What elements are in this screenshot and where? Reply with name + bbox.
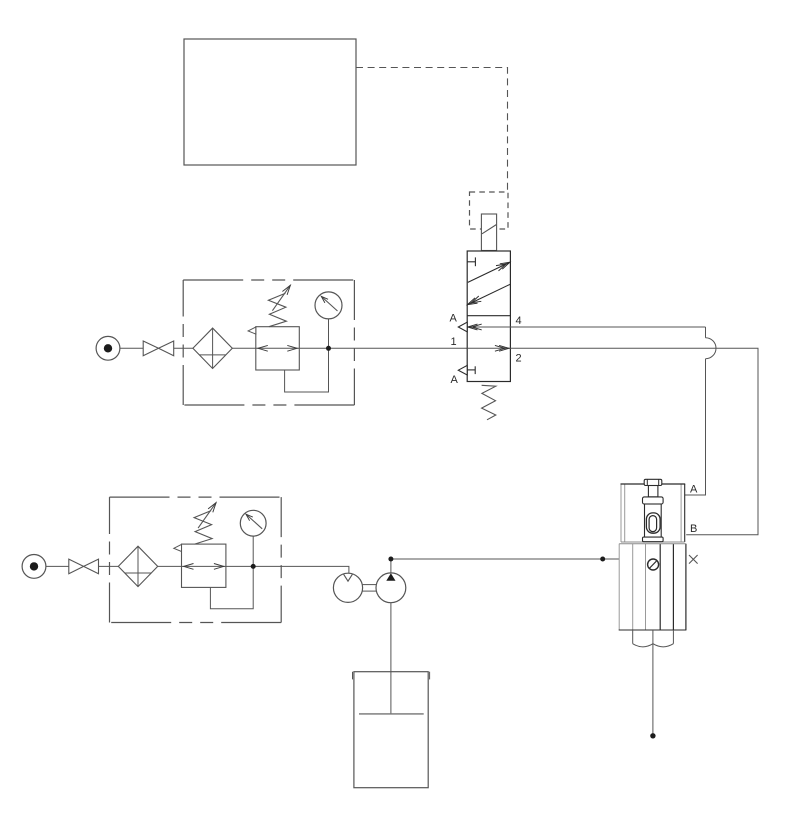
svg-text:1: 1	[451, 336, 457, 348]
svg-text:A: A	[450, 313, 458, 325]
svg-text:A: A	[451, 374, 459, 386]
svg-text:4: 4	[516, 315, 522, 327]
svg-text:2: 2	[516, 353, 522, 365]
svg-text:B: B	[690, 523, 697, 535]
svg-text:A: A	[690, 484, 698, 496]
